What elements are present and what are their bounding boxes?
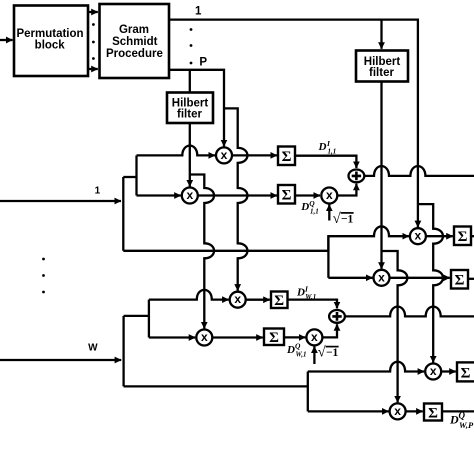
wire: channel W input vline	[122, 316, 124, 387]
wire: S2 output into multiplier X3	[295, 194, 320, 196]
svg-text:Σ: Σ	[455, 273, 465, 289]
wire: X7 output into sigma S5	[426, 235, 453, 237]
multiplier X9	[425, 364, 441, 380]
svg-text:Q: Q	[295, 342, 301, 351]
wire: channel 1 connector	[123, 176, 136, 178]
hilbert filter 2	[356, 51, 408, 82]
svg-text:D: D	[449, 413, 459, 427]
svg-text:Q: Q	[309, 199, 315, 208]
svg-text:W,1: W,1	[296, 350, 307, 358]
wire: row-P branch vline x=237.7 with jumps, into multiplier X4	[224, 108, 247, 290]
wire: channel W upper right feed with jump, into X9	[308, 362, 424, 372]
svg-text:x: x	[430, 364, 437, 378]
plus sign P1	[352, 172, 361, 181]
multiplier X5	[196, 330, 212, 346]
wire: S3 output into adder P2 top	[288, 300, 338, 309]
wire: X2 output into sigma S2	[198, 194, 277, 196]
svg-text:filter: filter	[177, 108, 202, 120]
svg-text:D: D	[318, 141, 327, 153]
wire: channel 1 bottom feed to right correlators, with jump over hilbert2 vline, into X7	[123, 226, 409, 250]
svg-text:W: W	[88, 342, 98, 353]
sigma S6	[451, 270, 468, 289]
sigma S7	[457, 362, 474, 381]
svg-text:Σ: Σ	[282, 188, 292, 204]
svg-text:x: x	[234, 292, 241, 306]
svg-text:1,1: 1,1	[328, 148, 337, 156]
wire: hilbert2 branch vline x=397.6 with jump, into X10	[382, 251, 408, 402]
wire: X4 output into sigma S3	[246, 299, 270, 301]
label: D^Q_W,P	[449, 411, 474, 430]
multiplier X10	[390, 403, 406, 419]
svg-text:W,1: W,1	[305, 293, 316, 301]
svg-text:Procedure: Procedure	[106, 48, 163, 60]
adder P2	[329, 310, 345, 323]
wire: hilbert1 output vline into multiplier X2	[189, 123, 191, 187]
sigma S2	[278, 185, 295, 204]
multiplier X3	[321, 188, 337, 204]
svg-text:x: x	[378, 270, 385, 284]
multiplier X2	[182, 188, 198, 204]
svg-text:filter: filter	[369, 67, 394, 79]
svg-text:W,P: W,P	[459, 420, 474, 430]
sigma S3	[271, 292, 288, 309]
wire: X8 output into sigma S6	[390, 277, 450, 279]
wire: channel W bottom feed	[124, 385, 308, 387]
wire: channel 1 lower feed into X8	[328, 277, 372, 279]
label: sqrt(-1) for X3	[333, 211, 354, 227]
wire: channel W right splitter vline	[307, 372, 309, 412]
multiplier X8	[374, 270, 390, 286]
wire: S8 output	[442, 410, 474, 412]
multiplier X4	[230, 292, 246, 308]
wire: channel W splitter vline	[148, 300, 150, 338]
wire: sqrt(-1) stub arrow into X6 bottom	[313, 346, 315, 364]
label: D^Q_W,1	[286, 342, 306, 359]
wire: channel 1 splitter vline	[135, 155, 137, 195]
label: D^I_1,1	[318, 139, 337, 156]
wire: branch of row-1 down into hilbert filter 2	[380, 20, 382, 49]
svg-text:Σ: Σ	[282, 149, 292, 165]
plus sign P2	[332, 312, 341, 321]
dots after gram row 1	[190, 28, 193, 64]
wire: arrow permutation to gram (top)	[88, 11, 98, 13]
wire: branch of row-P down into hilbert filter 1	[189, 70, 191, 93]
svg-text:Σ: Σ	[458, 229, 468, 245]
svg-text:Σ: Σ	[274, 293, 284, 309]
svg-text:√: √	[318, 345, 326, 361]
svg-text:x: x	[201, 330, 208, 344]
wire: X1 output into sigma S1	[232, 154, 277, 156]
multiplier X1	[216, 147, 232, 163]
wire: X6 output up into adder P2 bottom	[322, 324, 337, 337]
svg-text:1,1: 1,1	[310, 208, 319, 216]
sigma S8	[424, 404, 442, 421]
svg-text:D: D	[300, 201, 309, 213]
svg-text:√: √	[333, 211, 341, 227]
svg-text:1: 1	[195, 5, 202, 17]
adder P1	[349, 170, 365, 183]
multiplier X7	[410, 228, 426, 244]
sigma S5	[454, 227, 471, 246]
wire: channel 1 input arrow	[0, 200, 121, 202]
wire: sqrt(-1) stub arrow into X3 bottom	[328, 205, 330, 221]
svg-text:D: D	[296, 287, 305, 299]
svg-text:−1: −1	[341, 213, 354, 225]
svg-text:x: x	[186, 188, 193, 202]
svg-text:x: x	[221, 148, 228, 162]
svg-text:Gram: Gram	[119, 24, 149, 36]
wire: row-1 vline into multiplier X7	[417, 204, 419, 227]
svg-text:x: x	[415, 229, 422, 243]
wire: channel W input arrow	[0, 359, 121, 361]
wire: channel 1 input vline	[122, 177, 124, 251]
permutation block U1	[14, 6, 88, 77]
wire: right splitter vline	[327, 236, 329, 278]
wire: channel W Q line into X5	[149, 336, 195, 338]
label: D^I_W,1	[296, 284, 316, 301]
sigma S1	[278, 147, 295, 166]
wire: S1 output into adder P1 top	[295, 156, 356, 168]
label: D^Q_1,1	[300, 199, 318, 216]
wire: hilbert1 branch vline x=204.3 with jumps, into multiplier X5	[190, 175, 214, 329]
wire: X3 output up into adder P1 bottom	[337, 184, 356, 196]
wire: S5 output	[471, 235, 474, 237]
svg-text:1: 1	[95, 186, 101, 197]
wire: X5 output into sigma S4	[212, 336, 262, 338]
svg-text:Permutation: Permutation	[16, 28, 83, 40]
svg-text:Σ: Σ	[428, 406, 438, 422]
wire: channel 1 I line with jump over hilbert1 vline, into X1	[137, 146, 216, 156]
x glyphs in multipliers	[186, 148, 436, 418]
wire: gram output row 1 going right and down at x=417.9	[169, 20, 418, 205]
wire: X9 output into sigma S7	[441, 370, 456, 372]
svg-text:P: P	[199, 57, 207, 69]
svg-text:Σ: Σ	[269, 330, 279, 346]
gram schmidt procedure block U2	[100, 4, 170, 78]
dots between channel rows	[42, 258, 45, 294]
wire: input arrow into permutation block	[0, 39, 13, 41]
hilbert filter 1	[167, 93, 213, 124]
svg-text:x: x	[311, 330, 318, 344]
multiplier X6	[306, 329, 322, 345]
wire: channel W connector	[124, 315, 149, 317]
label: sqrt(-1) for X6	[318, 345, 339, 361]
svg-text:x: x	[394, 404, 401, 418]
svg-text:Σ: Σ	[461, 366, 471, 382]
wire: P2 output with jumps over x=397.6 and x=433.2	[345, 307, 474, 317]
svg-text:Schmidt: Schmidt	[112, 36, 158, 48]
wire: channel W lower right feed into X10	[308, 410, 389, 412]
svg-text:D: D	[286, 344, 295, 356]
wire: channel 1 Q line into X2	[137, 194, 181, 196]
wire: channel W I line with jump, into X4	[149, 290, 229, 300]
svg-text:x: x	[326, 188, 333, 202]
wire: gram output row P going right and down at x=224	[169, 70, 224, 147]
wire: S6 output	[468, 278, 474, 280]
wire: S4 output into multiplier X6	[284, 336, 305, 338]
wire: row-1 branch vline x=433.2 with jumps, into multiplier X9	[418, 204, 443, 362]
wire: hilbert2 output vline into X8	[380, 82, 382, 269]
wire: arrow permutation to gram (bottom)	[88, 68, 98, 70]
sigma S4	[264, 329, 284, 346]
wire: P1 output with jumps over x=381.5 and x=417.9	[364, 166, 474, 176]
svg-text:−1: −1	[326, 347, 339, 359]
wire: X10 output into sigma S8	[406, 410, 423, 412]
dots between permutation and gram	[92, 23, 95, 60]
svg-text:block: block	[35, 40, 66, 52]
